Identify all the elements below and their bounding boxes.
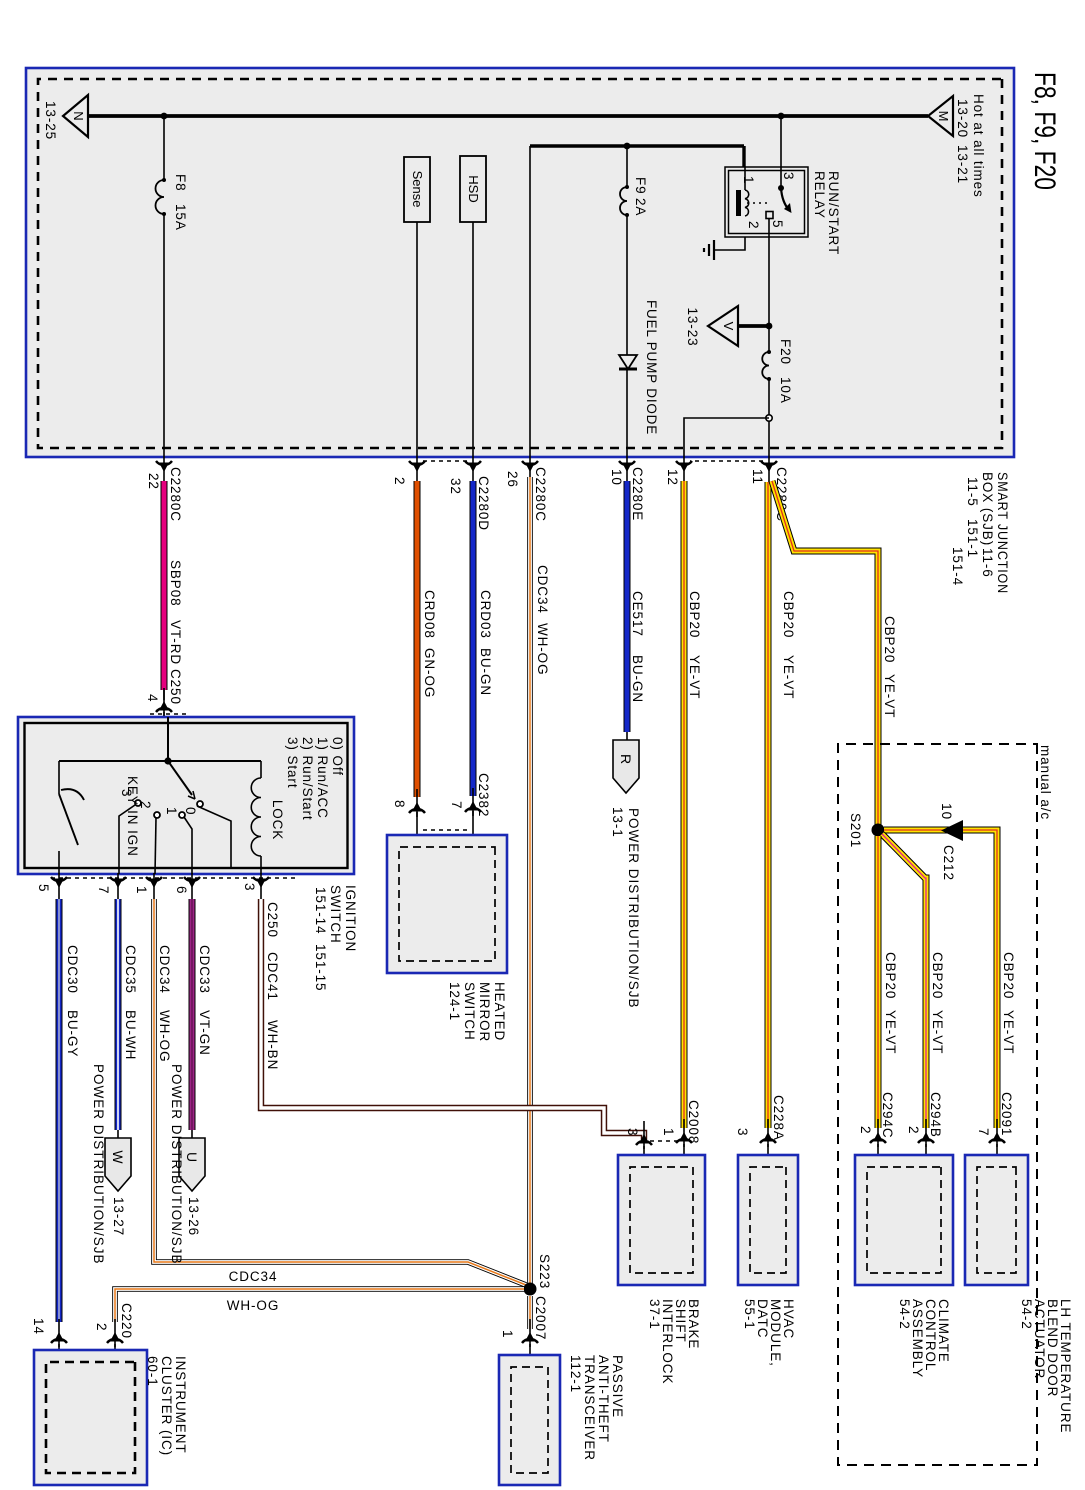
svg-text:5: 5	[770, 220, 785, 228]
junction node (open) pin11/pin12 split	[766, 415, 772, 421]
triangle M	[928, 96, 953, 136]
svg-text:BU-WH: BU-WH	[123, 1010, 138, 1060]
svg-text:22: 22	[146, 473, 161, 490]
ignition internal feed line	[59, 760, 261, 762]
connector C228A pin 3 arrow	[760, 1119, 776, 1147]
SJB pin 12 exit arrow	[676, 457, 692, 485]
LH temperature blend door actuator box	[965, 1155, 1028, 1285]
dashed bracket heated mirror pins	[423, 829, 467, 831]
connector pin 8 arrow heated mirror	[409, 789, 425, 817]
SJB pin 32 exit arrow	[465, 457, 481, 485]
svg-text:CONTROL: CONTROL	[923, 1299, 938, 1371]
connector C2008 pin 1 arrow	[676, 1119, 692, 1147]
splice S223	[524, 1283, 537, 1296]
svg-text:2: 2	[94, 1323, 109, 1331]
svg-text:ASSEMBLY: ASSEMBLY	[910, 1299, 925, 1378]
wire CBP20 YE-VT S201 to C294B	[882, 834, 926, 1128]
svg-text:151-1: 151-1	[965, 519, 980, 558]
svg-text:4: 4	[145, 694, 160, 702]
svg-text:C220: C220	[119, 1303, 134, 1339]
instrument cluster box	[34, 1350, 147, 1485]
wire WH-OG S223 to C2007	[527, 1296, 533, 1329]
svg-text:WH-BN: WH-BN	[265, 1020, 280, 1070]
svg-text:CDC41: CDC41	[265, 952, 280, 1001]
wire CDC41 WH-BN to C2008 pin 3	[261, 899, 644, 1140]
svg-text:54-2: 54-2	[1019, 1299, 1034, 1330]
junction node: bus to relay wire	[778, 113, 785, 120]
svg-text:2: 2	[858, 1126, 873, 1134]
connector C2007 pin 1 arrow	[522, 1319, 538, 1347]
svg-text:YE-VT: YE-VT	[883, 1010, 898, 1054]
svg-text:MIRROR: MIRROR	[477, 982, 492, 1042]
connector C294C pin 2 arrow	[870, 1119, 886, 1147]
svg-text:HVAC: HVAC	[781, 1299, 796, 1339]
svg-text:C2091: C2091	[999, 1092, 1014, 1136]
svg-text:SBP08: SBP08	[168, 560, 183, 607]
svg-text:R: R	[618, 754, 634, 764]
wire CDC30 BU-GY	[56, 899, 63, 1322]
wire bus to relay pin 3	[780, 116, 782, 167]
svg-text:14: 14	[31, 1318, 46, 1335]
svg-text:Sense: Sense	[410, 171, 425, 208]
wire CRD08 GN-OG	[414, 481, 421, 797]
contact 1 wire to pin 6	[184, 817, 192, 874]
svg-text:13-20: 13-20	[955, 99, 970, 138]
svg-text:LOCK: LOCK	[270, 800, 285, 840]
climate control assembly box	[855, 1155, 953, 1285]
heated mirror switch box	[387, 835, 507, 973]
svg-text:C2007: C2007	[533, 1296, 548, 1340]
svg-text:10: 10	[939, 803, 954, 820]
wire Sense to pin 2	[416, 222, 418, 457]
svg-text:1: 1	[134, 886, 149, 894]
svg-text:VT-GN: VT-GN	[197, 1010, 212, 1056]
SJB pin 22 exit arrow	[156, 457, 172, 485]
relay coil	[744, 167, 746, 190]
svg-text:13-1: 13-1	[610, 807, 625, 838]
svg-text:YE-VT: YE-VT	[781, 655, 796, 699]
ignition pin 7 arrow	[110, 873, 126, 901]
wire pin26 feed (lineB to right edge)	[529, 146, 531, 457]
arrow R power distribution	[613, 740, 639, 793]
arrow U power distribution	[179, 1138, 205, 1191]
svg-text:1: 1	[500, 1330, 515, 1338]
svg-text:F8: F8	[173, 174, 188, 192]
junction node: triangle V tap	[766, 323, 773, 330]
connector C294B pin 2 arrow	[918, 1119, 934, 1147]
svg-text:YE-VT: YE-VT	[930, 1010, 945, 1054]
svg-text:HSD: HSD	[466, 175, 481, 202]
svg-text:LH TEMPERATURE: LH TEMPERATURE	[1058, 1299, 1073, 1433]
wire pin4 into switch	[167, 717, 169, 761]
wire branch to pin 12	[684, 418, 769, 457]
svg-text:CBP20: CBP20	[687, 591, 702, 638]
svg-text:WH-OG: WH-OG	[535, 623, 550, 676]
svg-text:124-1: 124-1	[447, 982, 462, 1021]
svg-text:C228A: C228A	[771, 1095, 786, 1141]
svg-text:CDC33: CDC33	[197, 945, 212, 994]
svg-text:CDC30: CDC30	[65, 945, 80, 994]
svg-text:W: W	[110, 1150, 126, 1164]
svg-text:13-26: 13-26	[186, 1197, 201, 1236]
svg-text:12: 12	[665, 469, 680, 486]
main bus wire (vertical)	[88, 114, 928, 118]
relay switch contact and arm	[778, 185, 784, 191]
svg-text:6: 6	[174, 886, 189, 894]
svg-text:BRAKE: BRAKE	[686, 1299, 701, 1349]
svg-text:11: 11	[750, 469, 765, 485]
svg-text:CLUSTER (IC): CLUSTER (IC)	[159, 1356, 174, 1456]
splice S201	[872, 824, 885, 837]
pivot junction	[164, 757, 171, 764]
svg-text:S223: S223	[537, 1254, 552, 1289]
fuse F20 10A	[762, 352, 769, 379]
svg-text:13-23: 13-23	[685, 307, 700, 346]
svg-text:WH-OG: WH-OG	[227, 1298, 280, 1313]
svg-text:C250: C250	[168, 669, 183, 705]
svg-text:CE517: CE517	[630, 591, 645, 637]
svg-text:GN-OG: GN-OG	[422, 648, 437, 698]
svg-text:CDC35: CDC35	[123, 945, 138, 994]
svg-text:8: 8	[392, 800, 407, 808]
svg-text:151-4: 151-4	[950, 547, 965, 586]
contact 3 wire to pin 7	[119, 805, 135, 874]
svg-text:F8, F9, F20: F8, F9, F20	[1028, 72, 1061, 190]
connector C2008 pin 3 arrow	[636, 1121, 652, 1149]
SJB pin 2 exit arrow	[409, 457, 425, 485]
svg-text:N: N	[71, 111, 86, 120]
svg-text:37-1: 37-1	[647, 1299, 662, 1330]
svg-text:C212: C212	[941, 845, 956, 881]
svg-text:3) Start: 3) Start	[285, 737, 300, 788]
ignition pin 1 arrow	[146, 873, 162, 901]
key-in-ignition switch	[58, 761, 60, 794]
wire diode to pin 10	[626, 369, 628, 457]
connector C2382 pin 7 arrow	[465, 788, 481, 816]
svg-text:YE-VT: YE-VT	[882, 674, 897, 718]
svg-text:0: 0	[183, 807, 198, 815]
wire CDC35 BU-WH	[115, 899, 122, 1130]
wire CE517 BU-GN	[624, 481, 631, 732]
svg-text:CBP20: CBP20	[1001, 952, 1016, 999]
SJB pin 11 exit arrow	[761, 457, 777, 485]
svg-text:C2280C: C2280C	[533, 467, 548, 522]
svg-text:CDC34: CDC34	[229, 1269, 278, 1284]
fuel pump diode	[619, 355, 637, 369]
wire HSD to pin 32	[472, 222, 474, 457]
svg-text:BU-GN: BU-GN	[630, 655, 645, 703]
svg-text:DATC: DATC	[755, 1299, 770, 1338]
svg-text:3: 3	[625, 1128, 640, 1136]
svg-text:C294B: C294B	[928, 1092, 943, 1138]
wire coil pin 2 to ground	[714, 237, 745, 250]
svg-text:7: 7	[96, 886, 111, 894]
svg-text:VT-RD: VT-RD	[168, 620, 183, 665]
svg-text:YE-VT: YE-VT	[1001, 1010, 1016, 1054]
relay RUN/START RELAY box	[725, 167, 808, 237]
svg-text:PASSIVE: PASSIVE	[610, 1355, 625, 1418]
svg-text:54-2: 54-2	[897, 1299, 912, 1330]
svg-text:Hot at all times: Hot at all times	[971, 94, 986, 198]
HSD box	[460, 156, 486, 222]
connector IC pin 14 arrow	[51, 1319, 67, 1347]
C250 dashed connector line at ignition outputs	[53, 877, 295, 879]
C250 dashed connector line	[150, 713, 186, 715]
svg-text:32: 32	[448, 478, 463, 495]
svg-text:BU-GY: BU-GY	[65, 1010, 80, 1057]
manual a/c dashed group box	[838, 744, 1037, 1465]
svg-text:S201: S201	[848, 813, 863, 848]
Sense box	[404, 157, 430, 222]
svg-text:INSTRUMENT: INSTRUMENT	[173, 1356, 188, 1454]
svg-text:3: 3	[242, 883, 257, 891]
svg-text:BOX (SJB): BOX (SJB)	[980, 472, 995, 546]
junction node: bus to F8	[161, 113, 168, 120]
svg-text:RUN/START: RUN/START	[826, 171, 841, 255]
SJB pin 26 exit arrow	[522, 457, 538, 485]
wire CDC34 WH-OG from pin 26	[527, 477, 533, 1285]
svg-text:112-1: 112-1	[568, 1355, 583, 1393]
fuse F8 15A wire	[163, 116, 165, 180]
dashed bracket C2280C pins 12/11	[690, 460, 763, 462]
svg-text:7: 7	[449, 801, 464, 809]
dashed bracket C2008 pins	[650, 1140, 678, 1142]
svg-text:15A: 15A	[173, 204, 188, 231]
svg-text:13-27: 13-27	[111, 1197, 126, 1236]
wire CRD03 BU-GN	[470, 481, 477, 796]
svg-text:INTERLOCK: INTERLOCK	[660, 1299, 675, 1384]
wire lineB to relay pin 1	[742, 146, 745, 167]
ground symbol	[704, 240, 714, 260]
svg-text:0) Off: 0) Off	[330, 737, 345, 776]
contact 0 stub to case	[197, 806, 231, 867]
wire CBP20 YE-VT S201 to C2091	[884, 830, 997, 1128]
svg-text:CLIMATE: CLIMATE	[936, 1299, 951, 1363]
HVAC module box	[738, 1155, 798, 1285]
svg-text:F9: F9	[633, 177, 648, 195]
svg-text:60-1: 60-1	[145, 1356, 160, 1387]
svg-text:POWER DISTRIBUTION/SJB: POWER DISTRIBUTION/SJB	[169, 1064, 184, 1265]
svg-text:TRANSCEIVER: TRANSCEIVER	[582, 1355, 597, 1461]
svg-text:F20: F20	[778, 339, 793, 365]
triangle N	[63, 95, 88, 137]
wire CDC33 VT-GN	[189, 899, 196, 1130]
junction node: F9 tap	[624, 143, 631, 150]
svg-text:2: 2	[138, 801, 153, 809]
dashed bracket IC pins	[65, 1357, 107, 1359]
svg-text:HEATED: HEATED	[492, 982, 507, 1041]
wire relay pin 5 to F20	[768, 218, 770, 352]
internal feed line B (vertical, to relay coil / F9 / pin 26)	[530, 144, 744, 147]
svg-text:2) Run/Start: 2) Run/Start	[300, 737, 315, 821]
wire CBP20 YE-VT pin12 to C2008	[681, 481, 688, 1128]
svg-text:3: 3	[781, 172, 796, 180]
svg-text:V: V	[721, 322, 736, 331]
svg-text:YE-VT: YE-VT	[687, 655, 702, 699]
in-line connector C212	[941, 820, 963, 841]
svg-text:1) Run/ACC: 1) Run/ACC	[315, 737, 330, 819]
svg-text:11-6: 11-6	[980, 548, 995, 578]
svg-text:BLEND DOOR: BLEND DOOR	[1045, 1299, 1060, 1397]
svg-text:151-15: 151-15	[313, 944, 328, 991]
svg-text:10: 10	[609, 469, 624, 486]
svg-text:CBP20: CBP20	[882, 616, 897, 663]
svg-text:SWITCH: SWITCH	[462, 982, 477, 1041]
svg-text:11-5: 11-5	[965, 477, 980, 507]
svg-text:C294C: C294C	[880, 1092, 895, 1139]
svg-text:C2280D: C2280D	[476, 476, 491, 531]
wire CDC34 WH-OG to S223	[154, 899, 526, 1285]
Smart Junction Box (SJB) outline	[26, 68, 1014, 457]
svg-text:CDC34: CDC34	[157, 945, 172, 994]
wire SBP08 VT-RD	[161, 481, 168, 690]
svg-text:CDC34: CDC34	[535, 565, 550, 614]
svg-text:151-14: 151-14	[313, 887, 328, 934]
svg-text:M: M	[936, 111, 951, 122]
svg-text:POWER DISTRIBUTION/SJB: POWER DISTRIBUTION/SJB	[91, 1064, 106, 1265]
svg-text:3: 3	[735, 1128, 750, 1136]
ignition pin 5 arrow	[51, 873, 67, 901]
svg-text:13-25: 13-25	[43, 101, 58, 140]
svg-text:MODULE,: MODULE,	[768, 1299, 783, 1367]
svg-text:ACTUATOR: ACTUATOR	[1032, 1299, 1047, 1379]
svg-text:C250: C250	[265, 902, 280, 938]
svg-text:2A: 2A	[633, 198, 648, 216]
svg-text:1: 1	[661, 1128, 676, 1136]
wire stub to ignition pin 4	[163, 690, 165, 700]
wire CDC34 WH-OG S223 to IC	[115, 1289, 524, 1322]
wire CBP20 YE-VT S201 to C294C	[875, 836, 882, 1128]
dashed bracket C2280D pins 2/32	[423, 460, 467, 462]
wire CBP20 YE-VT branch to C228A HVAC	[765, 482, 772, 1128]
svg-text:BU-GN: BU-GN	[478, 648, 493, 696]
connector C220 pin 2 arrow	[107, 1319, 123, 1347]
brake shift interlock box	[618, 1155, 705, 1285]
svg-text:FUEL PUMP DIODE: FUEL PUMP DIODE	[644, 300, 659, 435]
svg-text:KEY IN IGN: KEY IN IGN	[125, 776, 140, 857]
wire into relay pin 3 contact	[780, 167, 782, 186]
svg-text:POWER DISTRIBUTION/SJB: POWER DISTRIBUTION/SJB	[626, 808, 641, 1009]
svg-text:WH-OG: WH-OG	[157, 1010, 172, 1063]
SJB pin 10 exit arrow	[619, 457, 635, 485]
wire CBP20 YE-VT pin11 to S201	[772, 481, 878, 826]
svg-text:CRD08: CRD08	[422, 590, 437, 639]
rotor arm	[168, 761, 192, 795]
svg-text:10A: 10A	[778, 377, 793, 404]
LOCK coil	[260, 761, 262, 778]
ignition pin 6 arrow	[184, 873, 200, 901]
svg-text:CBP20: CBP20	[883, 952, 898, 999]
svg-text:7: 7	[976, 1128, 991, 1136]
passive anti-theft transceiver box	[499, 1355, 560, 1485]
svg-text:SHIFT: SHIFT	[673, 1299, 688, 1343]
svg-text:SMART JUNCTION: SMART JUNCTION	[995, 472, 1010, 594]
switch contacts 0 1 2 3	[197, 801, 203, 807]
triangle V	[708, 306, 738, 346]
svg-text:SWITCH: SWITCH	[328, 885, 343, 944]
svg-text:CRD03: CRD03	[478, 590, 493, 639]
svg-text:ANTI-THEFT: ANTI-THEFT	[596, 1355, 611, 1443]
contact 2 wire to pin 1	[155, 818, 156, 874]
svg-text:RELAY: RELAY	[812, 171, 827, 219]
svg-text:13-21: 13-21	[955, 145, 970, 184]
svg-text:C2280E: C2280E	[630, 467, 645, 521]
svg-text:1: 1	[164, 807, 179, 815]
connector C250 pin 4 arrow	[156, 688, 172, 716]
svg-text:C2008: C2008	[686, 1100, 701, 1144]
svg-text:2: 2	[906, 1126, 921, 1134]
svg-text:CBP20: CBP20	[781, 591, 796, 638]
svg-text:5: 5	[36, 884, 51, 892]
svg-text:C2280C: C2280C	[168, 467, 183, 522]
ignition switch box	[18, 717, 354, 874]
svg-text:26: 26	[505, 471, 520, 488]
connector C2091 pin 7 arrow	[989, 1119, 1005, 1147]
svg-text:1: 1	[741, 176, 756, 184]
fuse F9 2A wire	[626, 146, 628, 187]
arrow W power distribution	[105, 1138, 131, 1191]
wire to triangle V (thick)	[738, 324, 769, 328]
svg-text:manual a/c: manual a/c	[1038, 745, 1053, 820]
svg-text:CBP20: CBP20	[930, 952, 945, 999]
svg-text:2: 2	[746, 221, 761, 229]
svg-text:55-1: 55-1	[742, 1299, 757, 1330]
ignition pin 3 arrow	[253, 873, 269, 901]
relay actuation dotted link	[744, 202, 767, 204]
svg-text:U: U	[184, 1152, 200, 1162]
svg-text:IGNITION: IGNITION	[343, 885, 358, 952]
svg-text:2: 2	[392, 477, 407, 485]
